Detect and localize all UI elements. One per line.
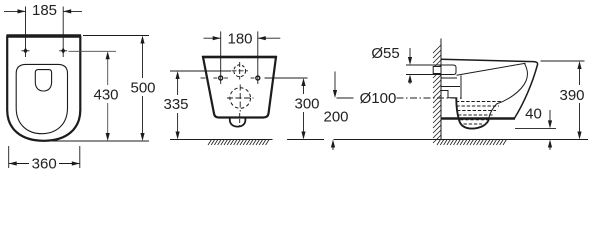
svg-text:180: 180 (227, 31, 252, 48)
dimension 300 (front height from holes) (265, 78, 325, 140)
svg-text:40: 40 (525, 106, 542, 123)
dimension 390 (side height) (541, 61, 585, 140)
svg-text:500: 500 (130, 80, 155, 97)
plan view: top edge thick (7, 34, 82, 37)
dimension 430 (plan) (52, 51, 149, 141)
dimension D100 label (side outlet) (337, 97, 354, 99)
fixing hole left (plan) (22, 42, 30, 57)
side view: inlet pipe through wall (433, 67, 441, 74)
dimension 335 (front height from inlet) (170, 71, 231, 140)
dimension 360 (plan bottom) (9, 146, 80, 168)
side view: floor line (431, 139, 588, 141)
front view: inlet crosshair (232, 62, 249, 80)
svg-text:430: 430 (93, 87, 118, 104)
side view: body bottom thick (441, 117, 515, 119)
dimension 40 (side bowl clearance) (515, 110, 556, 150)
svg-text:Ø55: Ø55 (371, 45, 399, 62)
dimension 185 (plan top) (4, 7, 82, 43)
side view: bowl back wall (460, 76, 462, 100)
svg-text:300: 300 (294, 96, 319, 113)
fixing hole right (front) (251, 76, 260, 80)
plan view: inner bowl opening (35, 70, 51, 91)
side view: floor hatching (437, 140, 506, 146)
side view: wall hatching (433, 45, 441, 143)
front view: body outline (203, 57, 276, 118)
side view: trapway top line (441, 86, 460, 88)
dimension 500 (plan) (83, 36, 149, 142)
svg-text:335: 335 (163, 96, 188, 113)
plan view: toilet outer outline (7, 37, 80, 141)
plan view: seat outline (16, 64, 67, 133)
side view: water surface dashes (456, 102, 502, 125)
side view: inlet pipe rect (441, 65, 456, 75)
dimension 200 (side outlet height) (331, 72, 431, 151)
front view: top edge thick (202, 56, 276, 59)
front view: drain circle D100 dashed (230, 88, 251, 109)
side view: inner front wall curve (489, 64, 528, 119)
side view: wall line (440, 39, 442, 140)
svg-text:360: 360 (32, 156, 57, 173)
side view: flush pipe lower line (441, 77, 457, 79)
svg-text:390: 390 (559, 87, 584, 104)
svg-text:200: 200 (323, 109, 348, 126)
side view: rim inner line (457, 63, 526, 75)
side view: outlet step (441, 91, 457, 98)
svg-text:185: 185 (32, 2, 57, 19)
fixing hole left (front) (201, 76, 228, 80)
side view: bowl underside U (456, 99, 489, 129)
fixing hole right (plan) (59, 42, 67, 57)
front view: inlet circle D55 dashed (234, 65, 246, 77)
side view: body outline top (441, 59, 538, 118)
front view: ground line (204, 139, 273, 141)
front view: ground hatching (208, 140, 269, 146)
dimension 180 (front top) (204, 31, 281, 84)
svg-text:Ø100: Ø100 (360, 90, 397, 107)
dimension D55 (side inlet) (406, 48, 441, 84)
front view: outlet semicircle (230, 118, 246, 127)
front view: outlet centerline (239, 113, 241, 126)
front view: drain crosshair (227, 85, 254, 112)
side view: outlet centerline dash-dot (397, 97, 463, 99)
